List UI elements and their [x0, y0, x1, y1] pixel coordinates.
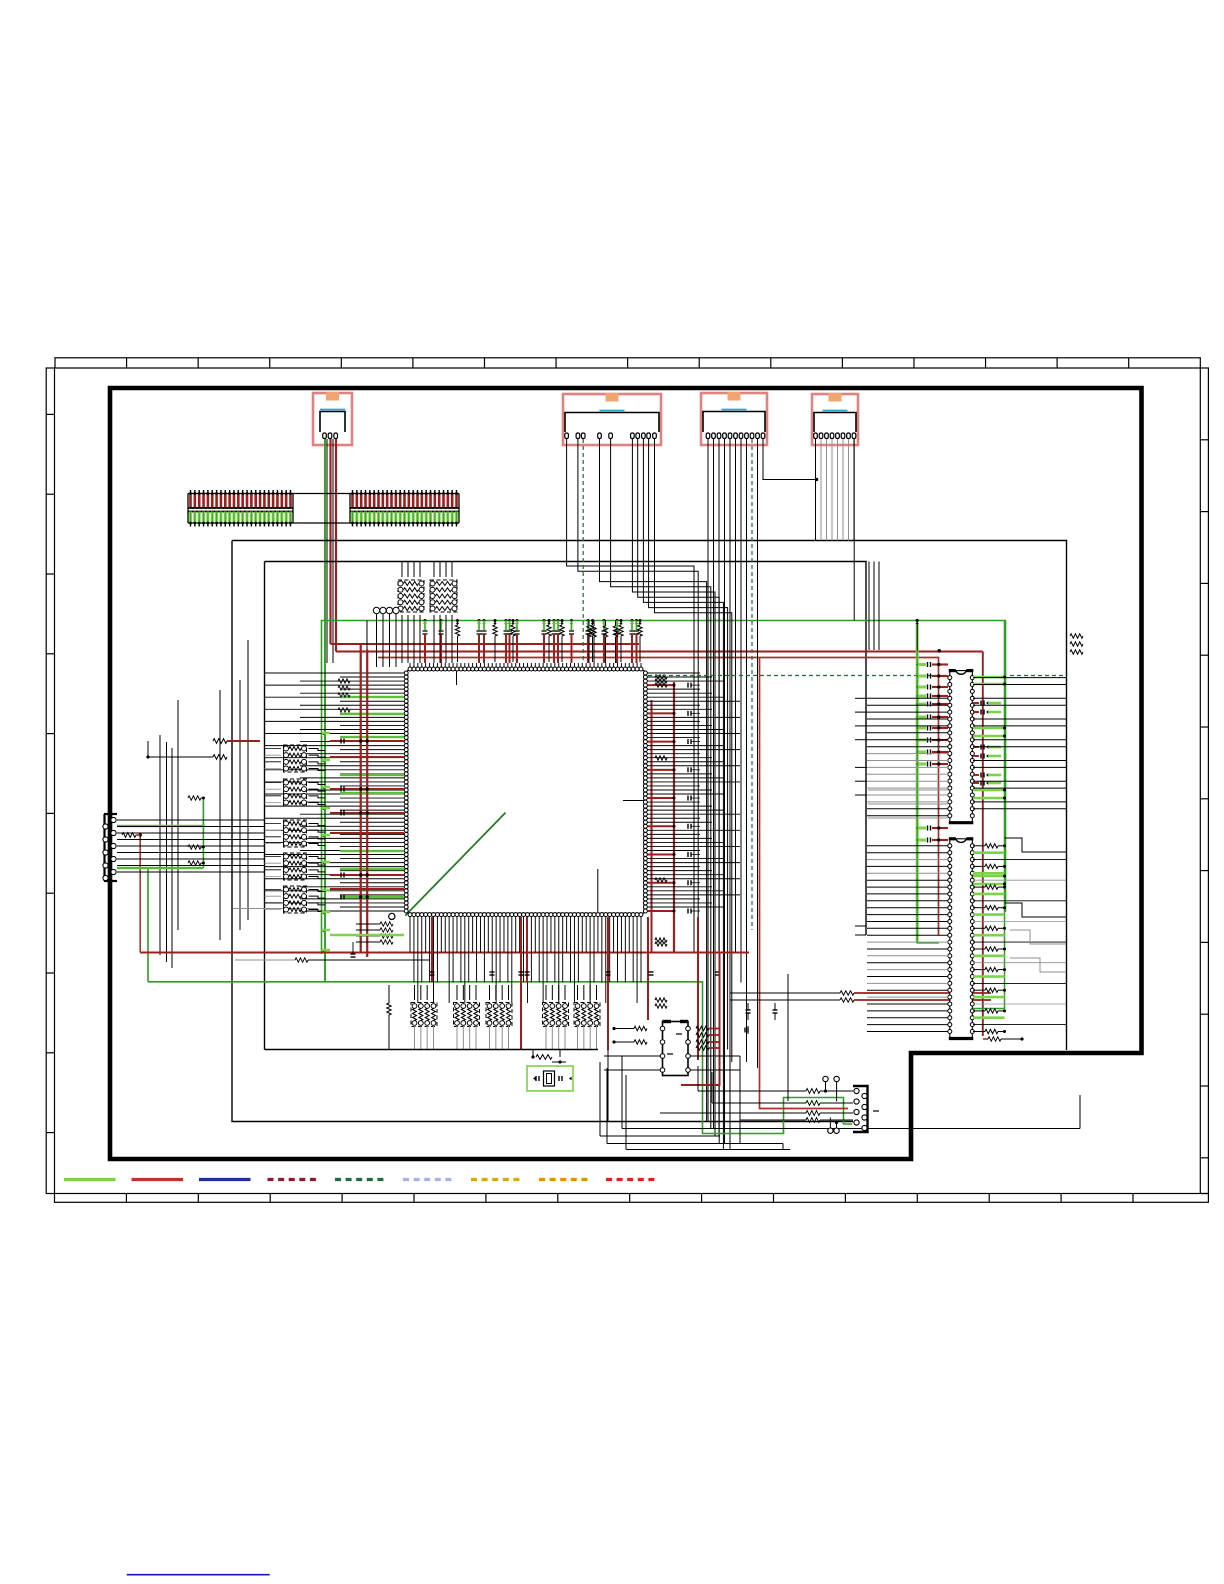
- legend line orange dashed: [539, 1178, 590, 1181]
- U1 inner tick right: [623, 800, 645, 802]
- wire maroon bus B: [366, 621, 368, 652]
- resistor pack RP10: [486, 985, 512, 1049]
- resistor pair left far: [146, 739, 260, 760]
- wire left edge pair: [855, 926, 866, 935]
- resistor pack RP12: [574, 985, 600, 1049]
- ic U3 body: [948, 671, 975, 823]
- wire bundle CN4 down: [816, 439, 855, 541]
- wire cap-array top link: [293, 493, 350, 495]
- wire maroon bus C: [378, 658, 939, 936]
- test point circles row: [373, 607, 399, 667]
- cap row left of U3: [916, 662, 948, 843]
- maroon segments U1 left: [330, 741, 404, 889]
- red vertical U2 feed: [681, 953, 720, 1086]
- resistor pack RP7: [284, 886, 307, 913]
- board outline border: [110, 388, 1142, 1159]
- U1 top pins: [408, 667, 643, 671]
- inline caps U1 left: [341, 739, 344, 900]
- small resistors left cluster: [188, 796, 205, 865]
- green bus below U1: [148, 982, 852, 1134]
- legend line green: [64, 1178, 116, 1181]
- ic U2 body: [660, 1022, 690, 1076]
- resistor row right of U1 top: [587, 621, 618, 664]
- maroon verticals below U1: [432, 917, 698, 1060]
- wire cap-array bottom link: [293, 522, 350, 524]
- capacitor array CA1: [188, 490, 293, 527]
- left packs stubs: [265, 749, 326, 912]
- microcontroller U1 body: [408, 671, 644, 914]
- wire CN1 black2 down: [332, 439, 334, 663]
- gray resistor row 960: [233, 909, 430, 963]
- resistor pack RP9: [454, 985, 480, 1049]
- wire green bus mid: [322, 621, 1006, 955]
- wire bundle U1 left: [265, 673, 404, 911]
- gnd rail below packs: [265, 1049, 599, 1051]
- connector CN5: [853, 1086, 879, 1132]
- green vertical right of U3: [973, 621, 1005, 1009]
- connector CN6 left edge: [103, 814, 117, 881]
- capacitor array CA2: [350, 490, 459, 527]
- U2 left resistors: [604, 1026, 660, 1070]
- vertical lines left of U1: [160, 640, 248, 968]
- resistors U3 upper left: [215, 0, 217, 1]
- wire CN5 long feeds: [698, 1066, 740, 1120]
- resistor left mid: [122, 833, 142, 838]
- connector CN4: [812, 393, 858, 445]
- wire CN1 maroon2 down: [335, 439, 337, 652]
- wire bottom nested lines: [600, 1050, 1080, 1150]
- wire bundle U3 left long: [855, 698, 867, 795]
- wire bundle U1 bottom: [410, 917, 641, 1003]
- capacitor group above U1: [423, 619, 643, 663]
- stair wires right of U4: [1005, 838, 1067, 972]
- green vertical left: [147, 868, 149, 982]
- legend line gold dashed: [471, 1178, 522, 1181]
- wire CN1 green down: [324, 439, 326, 983]
- wire CN1 black down: [326, 439, 328, 663]
- wire block rect inner: [265, 562, 867, 936]
- connector CN3: [701, 392, 767, 445]
- wire right region verticals: [869, 562, 879, 651]
- U1 left pins: [404, 671, 408, 913]
- legend line lavender dashed: [403, 1178, 455, 1181]
- resistor pack RP6: [284, 853, 307, 880]
- U1 inner tick top: [456, 671, 458, 685]
- resistor top right of U3: [1070, 634, 1083, 654]
- wire bundle U4 left: [867, 846, 948, 1032]
- resistor pack RP5: [284, 820, 307, 847]
- maroon verticals left of U1: [359, 644, 369, 958]
- wire bundle U3 right: [973, 678, 1066, 809]
- green segments U1 left: [340, 697, 404, 897]
- U1 right pins: [643, 671, 647, 913]
- footer blue rule: [127, 1574, 270, 1576]
- legend line darkgreen dashed: [335, 1178, 387, 1181]
- U1 top pin stubs: [410, 663, 641, 667]
- U1 diagonal mark: [405, 813, 505, 916]
- legend line blue: [199, 1178, 251, 1181]
- wire bundle U3 left black: [867, 698, 948, 815]
- U1 pin-1 marker circle: [389, 913, 395, 919]
- legend line red: [132, 1178, 184, 1181]
- resistor at U4 bottom: [983, 1037, 1024, 1041]
- resistors right of U1: [655, 675, 667, 1008]
- crystal X1 circuit: [527, 1050, 573, 1092]
- resistor pack RP2: [430, 580, 457, 612]
- wire bundle CN2 staircase: [567, 439, 732, 1150]
- wire bundle U1 right: [647, 673, 740, 914]
- legend line red dashed: [606, 1178, 658, 1181]
- dashed teal right: [1010, 675, 1066, 677]
- vertical black right of U2: [740, 974, 788, 1144]
- green vertical left of U3: [915, 619, 941, 943]
- dashed green right of U1: [648, 675, 947, 677]
- resistors feeding CN5: [660, 1089, 853, 1123]
- maroon verticals right of U1: [652, 682, 675, 952]
- green L left: [117, 798, 205, 869]
- connector CN2: [563, 393, 661, 445]
- test points below CN5: [828, 1118, 840, 1134]
- U1 bottom pins: [408, 913, 643, 917]
- maroon bus below U1: [140, 952, 749, 954]
- test points above CN5: [823, 1076, 840, 1101]
- maroon vertical left: [139, 835, 141, 953]
- resistor pack RP4: [284, 779, 307, 806]
- wire block rect outer: [232, 541, 1067, 1051]
- cap pair right of U2: [745, 1026, 748, 1034]
- wire bundle CN3 down: [708, 439, 818, 1150]
- resistor pack RP1: [398, 580, 424, 612]
- wire bundle left connector: [117, 820, 264, 872]
- resistor left of packs: [387, 985, 391, 1049]
- wire maroon bus A: [331, 643, 640, 645]
- resistor pack RP8: [411, 985, 437, 1049]
- red vertical to CN5: [760, 658, 849, 1109]
- wire CN1 maroon down: [329, 439, 331, 644]
- maroon vertical right bus: [982, 652, 984, 1037]
- ic U4 body: [948, 839, 975, 1039]
- caps above U2: [730, 991, 991, 1020]
- resistor block left below U1: [330, 922, 404, 957]
- green bus arrows left: [322, 732, 331, 953]
- connector CN1: [313, 392, 352, 445]
- resistor pack RP3: [284, 745, 307, 772]
- resistors upper left of U1: [338, 679, 350, 712]
- wire bundle U4 right resistors: [973, 844, 1066, 1034]
- U2 right resistors: [690, 1026, 740, 1070]
- wire vertical right of CN4: [853, 439, 855, 621]
- U1 inner tick bottom: [597, 869, 599, 912]
- legend line maroon dashed: [268, 1178, 320, 1181]
- RP1 RP2 stubs up: [402, 562, 452, 664]
- cap row right of U3: [973, 701, 1001, 786]
- drawing sheet frame: [46, 358, 1208, 1203]
- resistor pack RP11: [543, 985, 569, 1049]
- caps below U1: [430, 972, 720, 975]
- gray bundle left of U3: [868, 790, 948, 818]
- green segments right of U3: [973, 676, 1006, 886]
